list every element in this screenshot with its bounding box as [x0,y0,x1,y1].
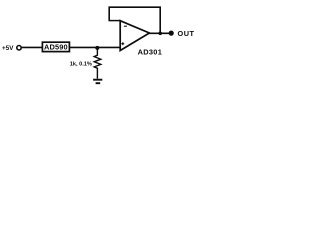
svg-text:AD301: AD301 [138,48,163,57]
svg-text:AD590: AD590 [44,43,68,52]
svg-text:OUT: OUT [178,29,195,38]
svg-text:1k, 0.1%: 1k, 0.1% [70,62,92,68]
svg-text:+5V: +5V [2,45,14,52]
